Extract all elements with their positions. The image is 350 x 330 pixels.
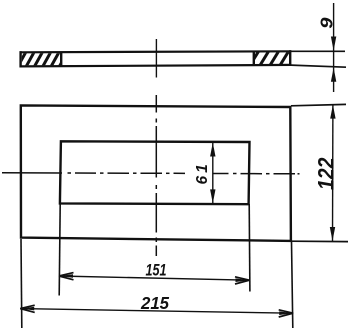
dimension line 61 (212, 143, 214, 204)
arrow 215 right (points right) (279, 311, 293, 315)
svg-text:151: 151 (146, 261, 167, 280)
svg-text:61: 61 (194, 161, 211, 184)
arrow 9 lower (points up) (331, 68, 336, 82)
svg-text:215: 215 (140, 293, 169, 313)
plan vertical center line (155, 95, 157, 256)
arrow 151 left (points left) (59, 274, 73, 278)
arrow 61 bottom (points down) (210, 189, 215, 203)
section view right end (289, 50, 291, 66)
arrow 122 bottom (points down) (330, 227, 335, 241)
dimension line 122 (332, 105, 334, 241)
hatching right block (249, 49, 300, 67)
plan horizontal center line right part (213, 173, 300, 175)
arrow 122 top (points up) (330, 105, 335, 119)
plan view outer rectangle (21, 105, 291, 241)
plan horizontal center line left part (2, 172, 185, 175)
section view bottom edge (20, 65, 292, 67)
dimension line 215 (20, 309, 293, 314)
arrow 61 top (points up) (210, 143, 215, 157)
section view top edge (20, 51, 292, 52)
section view left end (19, 51, 21, 67)
dimension line 9 (333, 3, 335, 92)
extension line 122 top (291, 104, 346, 105)
extension line 151 left (59, 204, 60, 296)
extension line bottom for dim 9 (291, 65, 346, 67)
svg-text:122: 122 (314, 157, 339, 190)
svg-text:9: 9 (317, 17, 336, 29)
section hole right edge (253, 51, 255, 66)
section hole left edge (60, 52, 62, 67)
extension line 122 bottom (291, 240, 348, 242)
dimension line 151 (59, 276, 250, 280)
extension line top for dim 9 (291, 50, 345, 52)
extension line 151 right (248, 204, 251, 292)
arrow 9 upper (points down) (331, 37, 336, 51)
arrow 151 right (points right) (236, 278, 250, 282)
extension line 215 right (292, 242, 293, 328)
section vertical center line (155, 39, 157, 78)
arrow 215 left (points left) (20, 307, 34, 311)
hatching left block (17, 50, 69, 68)
plan view inner rectangle (hole) (60, 141, 250, 204)
extension line 215 left (20, 239, 23, 328)
